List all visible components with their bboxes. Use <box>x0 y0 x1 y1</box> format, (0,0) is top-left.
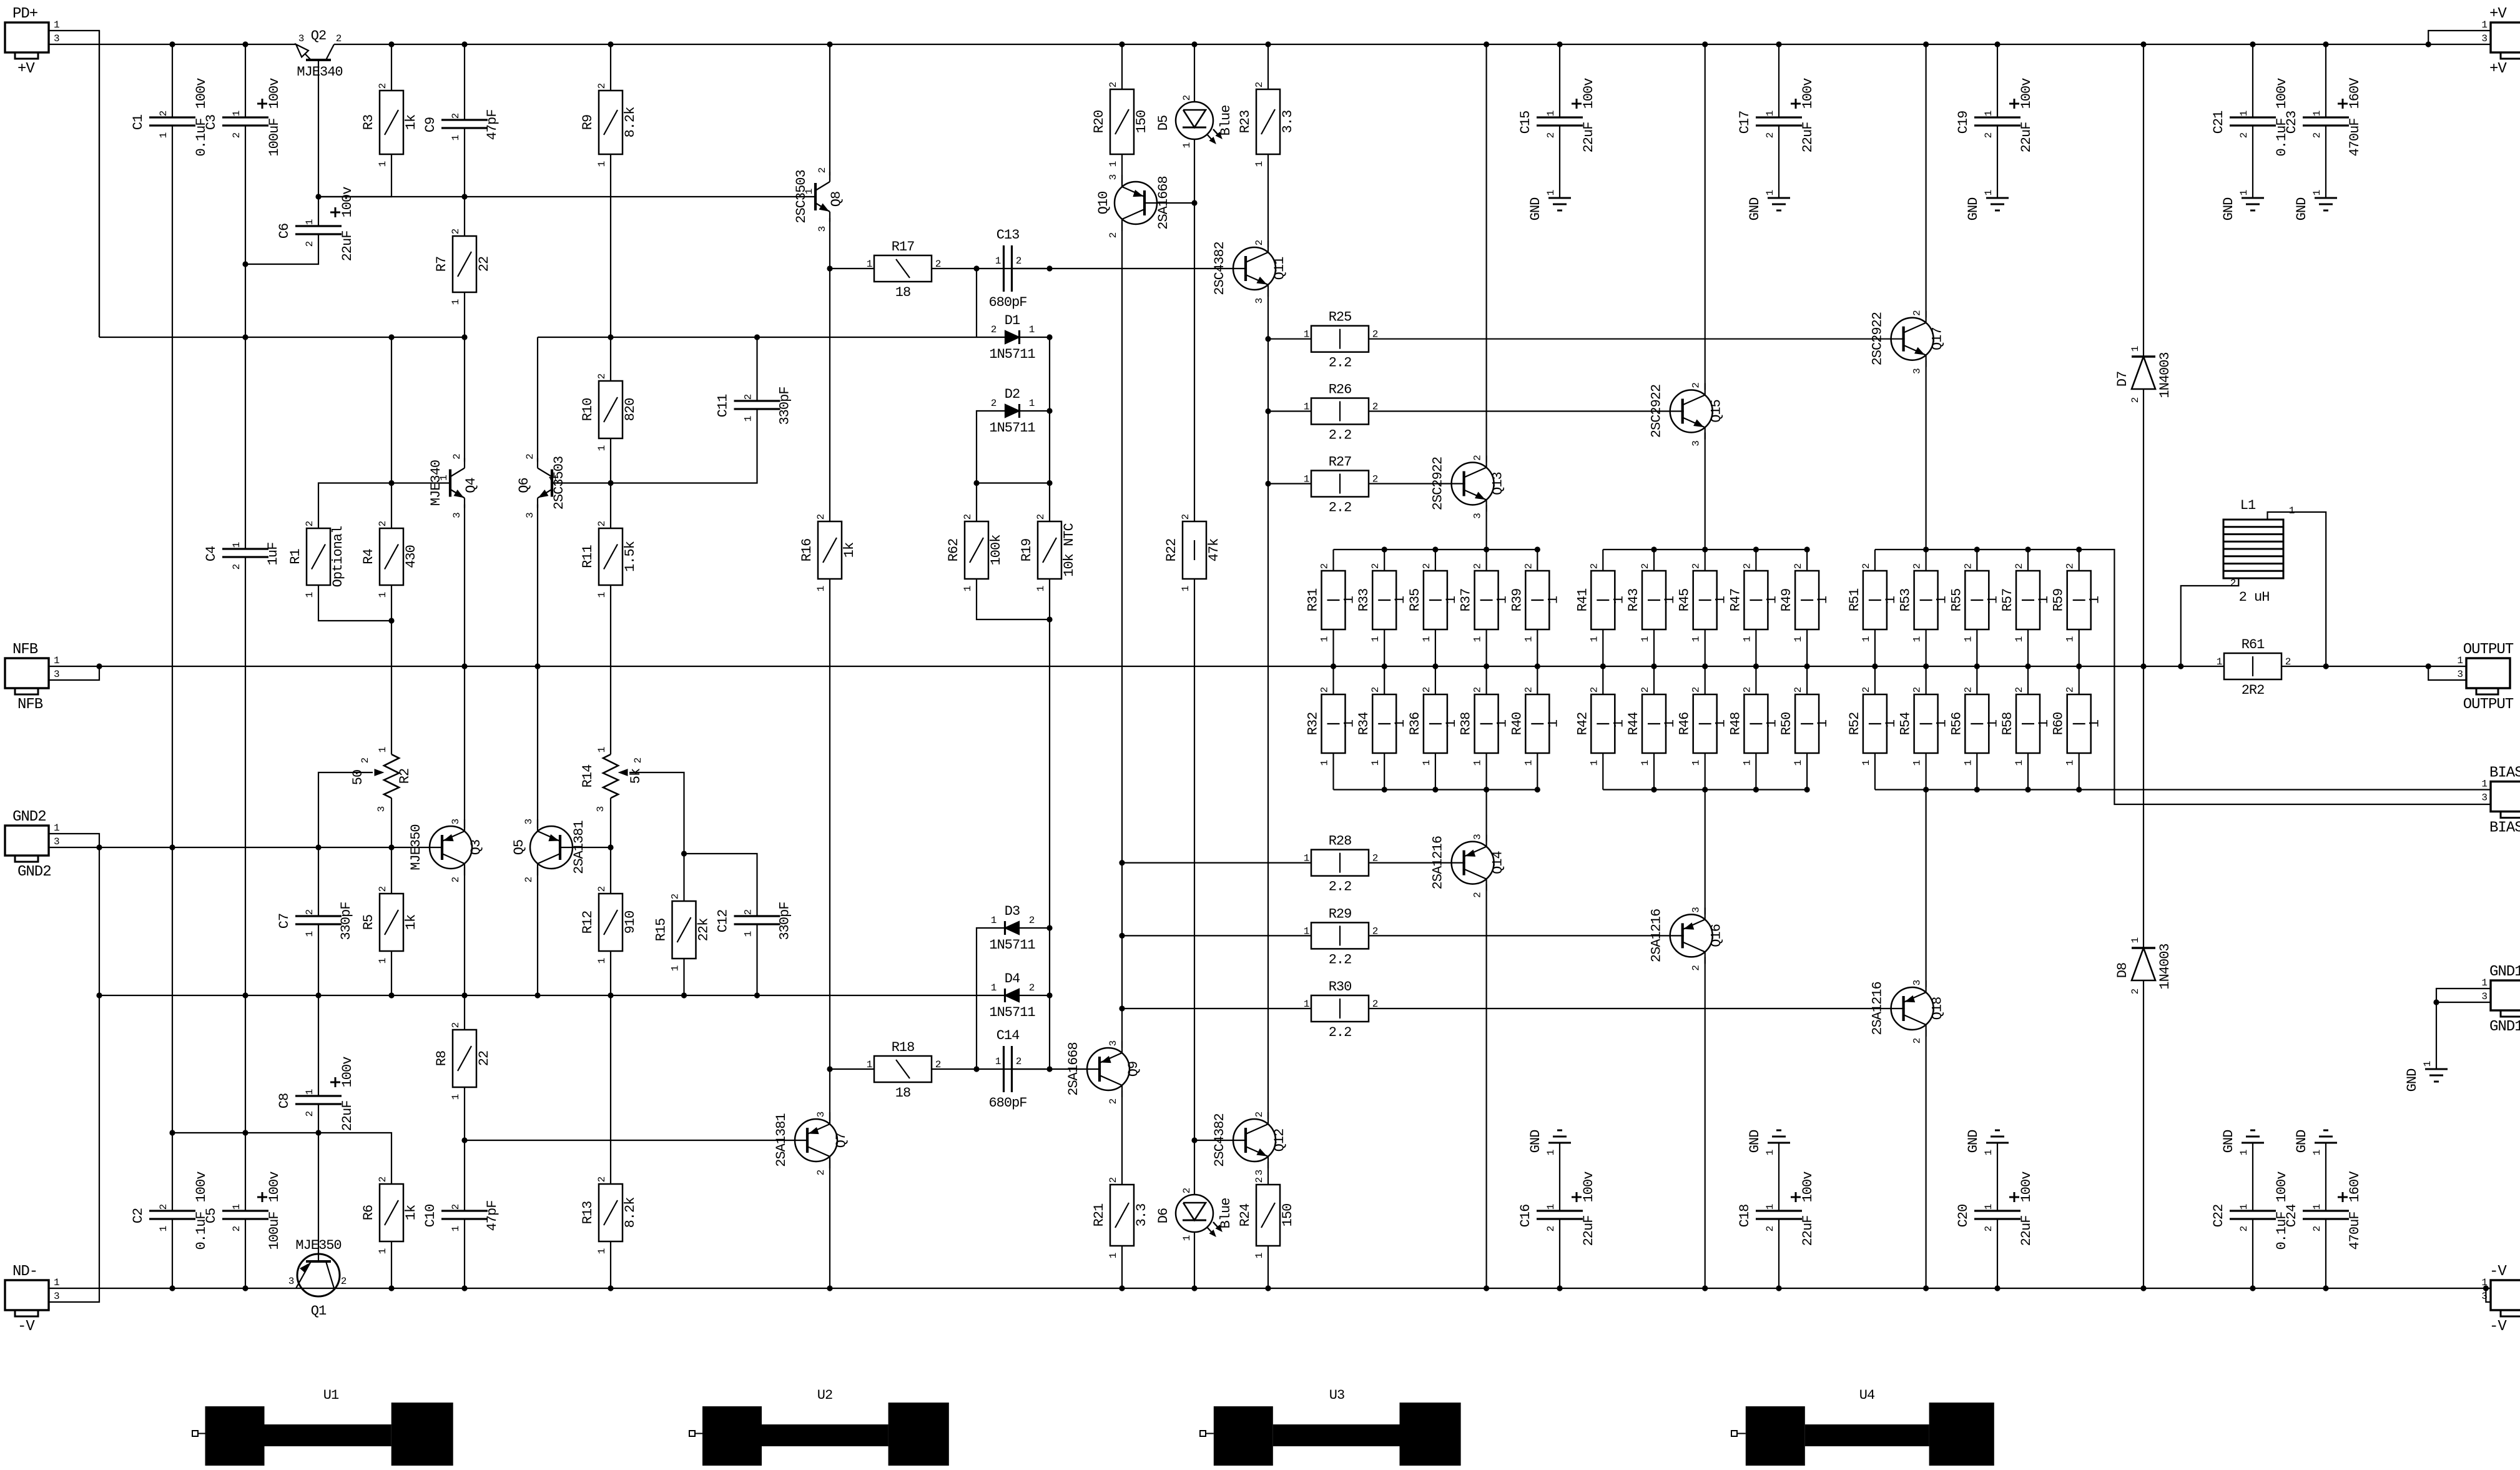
svg-text:1: 1 <box>377 747 388 752</box>
svg-text:C13: C13 <box>997 227 1020 243</box>
svg-text:1: 1 <box>1029 398 1035 409</box>
wire bank G3 top bus to BIAS jog <box>1875 550 2491 804</box>
junction 1594 c8 <box>681 992 687 998</box>
ground <box>1986 1142 2009 1144</box>
junction top bus <box>1651 546 1656 552</box>
svg-text:910: 910 <box>623 911 638 934</box>
wire C13 right <box>1012 268 1050 269</box>
svg-text:1: 1 <box>1472 636 1484 642</box>
junction -V c1 <box>169 1285 175 1291</box>
svg-text:1: 1 <box>2065 636 2076 642</box>
svg-text:R10: R10 <box>580 398 596 422</box>
svg-text:R11: R11 <box>580 545 596 568</box>
wire R16 top <box>829 269 830 521</box>
junction -V c10 <box>827 1285 832 1291</box>
svg-text:2: 2 <box>1108 1177 1119 1183</box>
capacitor C23 <box>2303 116 2349 118</box>
svg-text:1: 1 <box>158 132 169 138</box>
wire R1 top jog <box>318 483 391 529</box>
svg-text:1: 1 <box>743 416 754 422</box>
resistor R32 <box>1322 694 1346 753</box>
wire Q2 base stem <box>318 60 319 197</box>
svg-text:2: 2 <box>1181 95 1193 101</box>
svg-text:22k: 22k <box>696 918 712 941</box>
svg-text:R18: R18 <box>892 1040 915 1055</box>
svg-text:3: 3 <box>1108 174 1119 180</box>
junction OUTPUT rail <box>2140 663 2146 669</box>
svg-text:1: 1 <box>1713 596 1729 604</box>
wire R13 top <box>610 995 611 1184</box>
capacitor C2 <box>149 1210 195 1211</box>
svg-text:3.3: 3.3 <box>1280 111 1296 134</box>
wire Q7 pin2 down to -V <box>829 1160 830 1288</box>
wire Q15 collector up <box>1705 44 1706 390</box>
svg-text:330pF: 330pF <box>777 387 793 425</box>
ground <box>1768 197 1790 199</box>
wire Q13 collector up <box>1486 44 1487 463</box>
wire R6 bottom to -V <box>391 1241 392 1288</box>
svg-text:2: 2 <box>743 909 754 915</box>
svg-text:C22: C22 <box>2211 1205 2227 1228</box>
svg-text:2: 2 <box>1319 687 1331 693</box>
svg-text:1: 1 <box>2457 655 2463 666</box>
capacitor C7 <box>295 915 342 917</box>
svg-text:3: 3 <box>1912 368 1923 374</box>
wire R1 bottom jog <box>318 585 391 621</box>
wire R2 wiper to GND2 rail <box>318 772 373 847</box>
junction -V c16 <box>1265 1285 1271 1291</box>
svg-text:1: 1 <box>1319 760 1331 766</box>
junction NFB <box>1923 663 1929 669</box>
wire Q3 emitter up to NFB <box>464 666 465 828</box>
junction NFB <box>96 663 102 669</box>
svg-text:R21: R21 <box>1091 1203 1107 1226</box>
wire R17 left <box>830 268 874 269</box>
transistor Q3 <box>430 826 472 869</box>
svg-text:680pF: 680pF <box>988 1095 1026 1111</box>
junction <box>827 41 832 47</box>
wire rail A horizontal left <box>99 337 465 338</box>
svg-text:1: 1 <box>1035 586 1046 591</box>
wire R55 bottom stub <box>1976 629 1977 666</box>
svg-text:2: 2 <box>1545 132 1557 138</box>
resistor R12 <box>599 894 623 951</box>
wire R8 bottom to Q7 base node <box>464 1087 465 1140</box>
svg-text:R4: R4 <box>361 549 377 565</box>
wire R53 top stub <box>1926 550 1927 571</box>
svg-text:3: 3 <box>1254 298 1265 303</box>
wire c13 down through R19 <box>1049 411 1050 521</box>
wire L1 pin2 jog to output <box>2181 578 2239 666</box>
svg-text:OUTPUT: OUTPUT <box>2463 641 2514 658</box>
junction wiper node <box>681 851 687 856</box>
junction <box>2323 41 2328 47</box>
svg-text:2: 2 <box>1421 687 1432 693</box>
capacitor C13 <box>1003 245 1005 292</box>
svg-text:2: 2 <box>1472 455 1484 461</box>
junction 1814 c2 <box>242 1130 248 1135</box>
svg-text:GND: GND <box>2294 1130 2310 1153</box>
capacitor C5 <box>222 1210 268 1211</box>
junction Q2 base node <box>315 194 321 199</box>
svg-text:2: 2 <box>1016 255 1021 267</box>
svg-text:GND: GND <box>1528 197 1543 220</box>
wire R45 top stub <box>1705 550 1706 571</box>
wire C22 bottom to -V rail <box>2252 1219 2253 1288</box>
svg-text:C15: C15 <box>1518 111 1533 134</box>
svg-text:R60: R60 <box>2051 713 2067 736</box>
svg-text:2: 2 <box>1029 915 1035 926</box>
wire R33 bottom stub <box>1384 629 1385 666</box>
junction D3 node <box>1046 925 1052 930</box>
wire R5 top <box>391 847 392 894</box>
svg-text:1: 1 <box>1108 161 1119 167</box>
svg-text:2: 2 <box>1523 563 1534 569</box>
resistor R49 <box>1795 571 1819 629</box>
capacitor C22 <box>2230 1210 2276 1211</box>
junction -V <box>1484 1285 1489 1291</box>
resistor R20 <box>1110 89 1134 154</box>
svg-text:1: 1 <box>1815 596 1831 604</box>
svg-text:Q10: Q10 <box>1096 192 1111 215</box>
svg-text:2: 2 <box>1983 132 1994 138</box>
wire Q17 emitter down to bus <box>1926 360 1927 550</box>
svg-text:R55: R55 <box>1949 589 1964 612</box>
resistor R11 <box>599 528 623 585</box>
svg-text:1: 1 <box>304 219 315 225</box>
svg-text:R39: R39 <box>1509 589 1525 612</box>
wire R18 right <box>932 1068 977 1070</box>
wire 1814 line to R6 <box>318 1133 391 1184</box>
wire R37 bottom stub <box>1486 629 1487 666</box>
svg-text:47pF: 47pF <box>485 1201 500 1231</box>
junction top bus <box>1702 546 1708 552</box>
junction NFB at c6 <box>534 663 540 669</box>
wire R13 bottom to -V <box>610 1241 611 1288</box>
wire R3 top to rail <box>391 44 392 91</box>
wire R48 top stub <box>1755 666 1756 694</box>
svg-text:R13: R13 <box>580 1201 596 1225</box>
svg-text:R49: R49 <box>1779 589 1794 612</box>
svg-text:+V: +V <box>17 61 35 77</box>
svg-text:1: 1 <box>2036 719 2052 728</box>
wire R34 top stub <box>1384 666 1385 694</box>
wire R48 bottom stub <box>1755 753 1756 790</box>
junction output left node <box>2178 663 2183 669</box>
wire R41 top stub <box>1602 550 1603 571</box>
wire R4 bottom <box>391 585 392 621</box>
svg-text:R51: R51 <box>1847 588 1863 611</box>
transistor Q12 <box>1233 1119 1276 1162</box>
svg-text:1: 1 <box>2311 1204 2323 1210</box>
wire c1 down to GND2 rail <box>172 126 173 847</box>
IC U3 <box>1200 1431 1206 1436</box>
svg-text:1: 1 <box>2311 1150 2323 1155</box>
svg-text:2: 2 <box>1254 240 1265 245</box>
svg-text:2.2: 2.2 <box>1329 952 1352 967</box>
wire R10 top to rail A <box>610 337 611 381</box>
svg-text:1: 1 <box>377 958 388 964</box>
wire R39 top stub <box>1537 550 1538 571</box>
wire D3 left jog down to R18 node <box>977 928 1005 1069</box>
junction 1594 c7 <box>608 992 613 998</box>
svg-text:1: 1 <box>304 1089 315 1095</box>
resistor R4 <box>380 528 403 585</box>
wire R52 bottom stub <box>1874 753 1876 790</box>
svg-text:1: 1 <box>1983 190 1994 195</box>
svg-text:2: 2 <box>304 909 315 915</box>
wire R8 top to 1594 rail <box>464 995 465 1030</box>
svg-text:1: 1 <box>54 822 59 834</box>
wire Q15 emitter down to bus <box>1705 433 1706 550</box>
svg-text:1: 1 <box>1962 760 1974 766</box>
svg-text:1: 1 <box>450 1226 461 1231</box>
wire R30 to Q18 base <box>1369 1008 1905 1009</box>
resistor R62 <box>965 521 988 579</box>
svg-text:1: 1 <box>1934 719 1950 728</box>
svg-text:R6: R6 <box>361 1205 377 1220</box>
wire R56 bottom stub <box>1976 753 1977 790</box>
junction R30 node <box>1119 1005 1125 1011</box>
wire c2 C4 down to 1814 line <box>245 557 246 1133</box>
junction <box>1265 41 1271 47</box>
junction R29 node <box>1119 933 1125 939</box>
svg-text:150: 150 <box>1134 111 1149 134</box>
resistor R26 <box>1311 398 1369 425</box>
svg-text:2: 2 <box>1793 687 1804 693</box>
svg-text:100v: 100v <box>194 78 209 109</box>
wire R20 bottom to Q10 <box>1121 154 1123 184</box>
svg-text:150: 150 <box>1280 1204 1296 1227</box>
wire R34 bottom stub <box>1384 753 1385 790</box>
ground <box>1548 1142 1571 1144</box>
svg-text:2: 2 <box>670 894 681 899</box>
ground <box>2315 1142 2337 1144</box>
svg-text:100v: 100v <box>1800 78 1816 109</box>
svg-text:1: 1 <box>1861 636 1872 642</box>
svg-text:1: 1 <box>1370 760 1381 766</box>
wire R7 top <box>464 197 465 236</box>
wire R18 left <box>830 1068 874 1070</box>
wire R54 bottom stub <box>1926 753 1927 790</box>
wire C18 top from ground <box>1778 1143 1779 1211</box>
svg-text:2SA1216: 2SA1216 <box>1870 982 1886 1035</box>
wire D5 bottom to Q10 base node <box>1194 139 1195 203</box>
svg-text:1: 1 <box>1764 719 1779 728</box>
wire R11 top <box>610 483 611 529</box>
svg-text:1: 1 <box>231 542 242 548</box>
wire c13 from rail A down <box>1049 337 1050 411</box>
svg-text:2: 2 <box>450 1022 461 1028</box>
svg-text:1: 1 <box>1588 760 1600 766</box>
resistor R6 <box>380 1184 403 1241</box>
svg-text:R57: R57 <box>2000 589 2016 612</box>
junction <box>1776 41 1781 47</box>
wire C22 top from ground <box>2252 1143 2253 1211</box>
svg-text:1: 1 <box>1421 760 1432 766</box>
wire R40 bottom stub <box>1537 753 1538 790</box>
svg-text:2: 2 <box>341 1276 347 1287</box>
svg-text:R7: R7 <box>434 257 450 272</box>
junction rail A <box>242 334 248 340</box>
svg-text:2SC2922: 2SC2922 <box>1649 385 1665 438</box>
wire D6 bottom to -V <box>1194 1232 1195 1288</box>
svg-text:GND: GND <box>1747 197 1763 220</box>
svg-text:R28: R28 <box>1329 834 1352 849</box>
svg-text:1: 1 <box>596 1248 608 1254</box>
junction bottom bus <box>1382 787 1387 792</box>
junction bottom bus <box>2025 787 2030 792</box>
capacitor C19 <box>1974 116 2020 118</box>
junction OUTPUT <box>2426 663 2431 669</box>
svg-text:1: 1 <box>438 475 450 481</box>
junction top bus <box>1804 546 1810 552</box>
svg-text:1: 1 <box>1319 636 1331 642</box>
junction D5 node <box>1191 200 1197 205</box>
wire R42 bottom stub <box>1602 753 1603 790</box>
junction GND2 <box>96 844 102 850</box>
svg-text:1: 1 <box>231 111 242 116</box>
wire R51 bottom stub <box>1874 629 1876 666</box>
wire c12 jog down to D1 <box>976 269 977 337</box>
resistor R36 <box>1424 694 1447 753</box>
svg-text:2: 2 <box>2285 656 2291 668</box>
svg-text:2: 2 <box>2238 132 2250 138</box>
wire Q9 pin2 down to R21 <box>1121 1090 1123 1185</box>
wire OUTPUT pin3 jog <box>2428 666 2466 680</box>
wire R59 top stub <box>2079 550 2080 571</box>
svg-text:3: 3 <box>817 226 828 232</box>
junction top bus <box>2025 546 2030 552</box>
resistor R16 <box>818 521 842 579</box>
wire R39 bottom stub <box>1537 629 1538 666</box>
connector GND1 <box>2491 980 2520 1010</box>
svg-text:2: 2 <box>817 167 828 173</box>
svg-text:C23: C23 <box>2284 111 2300 134</box>
wire Q10 base to D5 node <box>1143 202 1194 204</box>
junction NFB <box>1804 663 1810 669</box>
ground <box>2425 1068 2448 1070</box>
wire R31 top stub <box>1332 550 1334 571</box>
wire R62 top node to c13 <box>977 482 1050 483</box>
svg-text:1: 1 <box>995 1056 1001 1067</box>
svg-text:47k: 47k <box>1206 538 1222 561</box>
svg-text:1: 1 <box>743 931 754 937</box>
svg-text:C3: C3 <box>204 115 219 130</box>
svg-text:2: 2 <box>1912 687 1923 693</box>
wire R58 bottom stub <box>2027 753 2029 790</box>
wire L1 pin1 jog to output <box>2268 512 2326 666</box>
svg-text:R3: R3 <box>361 115 377 130</box>
capacitor C24 <box>2303 1210 2349 1211</box>
wire C15 top <box>1559 44 1560 117</box>
svg-text:1: 1 <box>1985 719 2001 728</box>
svg-text:1: 1 <box>1472 760 1484 766</box>
wire Q7 base <box>465 1140 809 1141</box>
svg-text:1: 1 <box>1523 636 1534 642</box>
svg-text:BIAS: BIAS <box>2489 820 2520 837</box>
svg-text:3: 3 <box>523 819 534 824</box>
svg-text:Blue: Blue <box>1218 106 1234 136</box>
svg-text:2: 2 <box>450 877 461 882</box>
junction <box>1557 41 1562 47</box>
capacitor C12 <box>734 915 780 917</box>
junction <box>1923 41 1929 47</box>
junction NFB <box>1382 663 1387 669</box>
svg-text:2: 2 <box>596 1176 608 1182</box>
svg-text:2: 2 <box>1741 563 1753 569</box>
wire Q7 pin3 up to R18 node <box>829 1069 830 1121</box>
svg-text:1: 1 <box>1793 760 1804 766</box>
svg-text:160V: 160V <box>2347 77 2363 109</box>
svg-text:1: 1 <box>1662 719 1678 728</box>
svg-text:3: 3 <box>1254 1170 1265 1175</box>
svg-text:3: 3 <box>288 1276 294 1287</box>
transistor Q11 <box>1233 247 1276 290</box>
resistor R39 <box>1525 571 1549 629</box>
junction Q7 base node <box>461 1137 467 1143</box>
junction NFB <box>2076 663 2082 669</box>
junction -V c4 <box>388 1285 394 1291</box>
wire R17 node to C13 <box>977 268 1046 269</box>
svg-text:2: 2 <box>2065 563 2076 569</box>
svg-text:C8: C8 <box>277 1093 292 1108</box>
svg-text:+V: +V <box>2489 61 2507 77</box>
wire c14 down <box>1121 863 1123 936</box>
svg-text:1: 1 <box>1662 596 1678 604</box>
wire C17 bottom to ground <box>1778 126 1779 198</box>
svg-text:2: 2 <box>1254 1112 1265 1117</box>
svg-text:R31: R31 <box>1306 588 1321 611</box>
transistor Q6 <box>551 470 553 497</box>
svg-text:Q7: Q7 <box>834 1133 849 1148</box>
svg-text:-V: -V <box>2489 1263 2507 1280</box>
wire GND2 pin1 jog <box>49 834 99 847</box>
junction C13 right node <box>1046 265 1052 271</box>
junction -V <box>1994 1285 2000 1291</box>
svg-text:22uF: 22uF <box>2019 1216 2034 1246</box>
svg-text:C11: C11 <box>716 394 731 417</box>
wire R38 bottom stub <box>1486 753 1487 790</box>
svg-text:R59: R59 <box>2051 589 2067 612</box>
svg-text:C18: C18 <box>1737 1205 1753 1228</box>
transistor Q9 <box>1087 1048 1130 1090</box>
wire R12 bottom <box>610 951 611 995</box>
svg-text:D1: D1 <box>1005 313 1020 328</box>
svg-text:1: 1 <box>377 161 388 167</box>
wire Q12 emitter down to R24 <box>1267 1162 1269 1185</box>
svg-text:1: 1 <box>1545 1150 1557 1155</box>
junction Q12 base node <box>1191 1137 1197 1143</box>
junction D2 node <box>1046 408 1052 413</box>
wire C2 bottom to -V <box>172 1219 173 1288</box>
svg-text:1: 1 <box>596 592 608 598</box>
svg-text:R42: R42 <box>1575 713 1590 736</box>
junction R27 node <box>1265 481 1271 486</box>
svg-text:1: 1 <box>815 586 827 591</box>
svg-text:1: 1 <box>2311 190 2323 195</box>
ground <box>1768 1142 1790 1144</box>
svg-text:Q9: Q9 <box>1126 1062 1141 1077</box>
svg-text:3.3: 3.3 <box>1134 1204 1149 1227</box>
resistor R34 <box>1372 694 1396 753</box>
svg-text:100k: 100k <box>988 535 1004 566</box>
wire R60 top stub <box>2079 666 2080 694</box>
wire R30 left <box>1122 1008 1311 1009</box>
wire R11 bottom to R14 <box>610 585 611 754</box>
svg-text:1.5k: 1.5k <box>623 541 638 572</box>
wire R14 wiper jog <box>629 772 684 901</box>
